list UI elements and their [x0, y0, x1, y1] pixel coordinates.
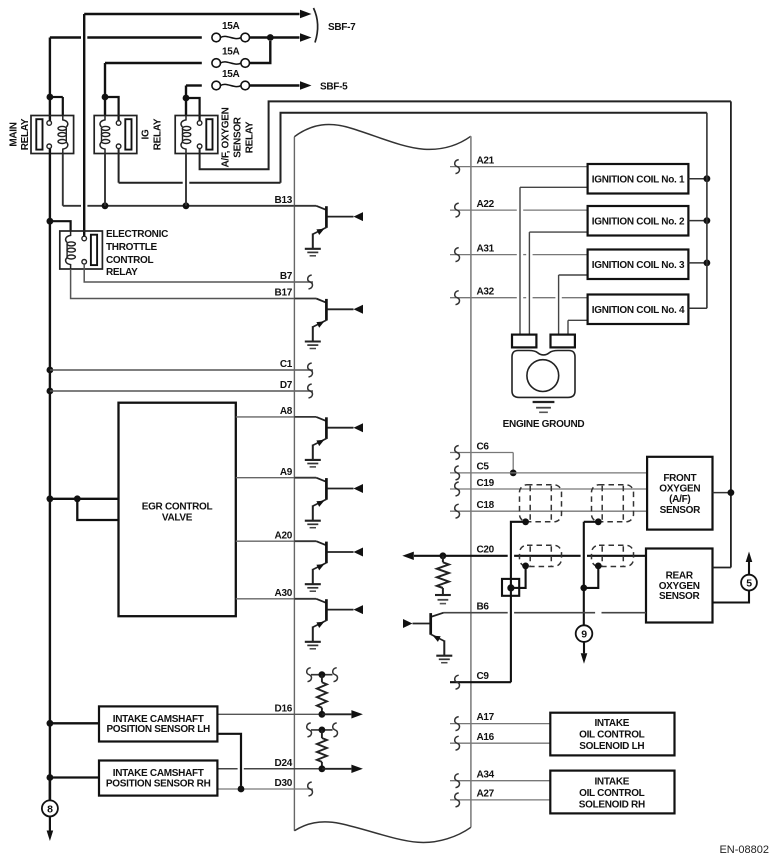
wire fuse row y63 from IG bus corner — [105, 62, 202, 64]
svg-text:15A: 15A — [222, 46, 240, 57]
wire LH sensor lower output to D30 junction — [217, 734, 241, 786]
node 8 circle — [42, 800, 58, 816]
svg-text:REAR: REAR — [666, 570, 694, 581]
wire from main bus to ETC relay coil — [50, 221, 71, 231]
wire ignition coil 3 right pin — [688, 262, 707, 264]
svg-text:RELAY: RELAY — [20, 118, 31, 150]
label C6 — [477, 441, 490, 452]
svg-text:SOLENOID RH: SOLENOID RH — [579, 800, 645, 811]
svg-text:THROTTLE: THROTTLE — [106, 242, 158, 253]
wire bus to node 8 — [49, 778, 51, 801]
break squiggle A34 — [455, 774, 460, 788]
svg-text:A9: A9 — [280, 467, 293, 478]
label IGNITION COIL No. 4 — [592, 305, 685, 316]
wire D30 from RH sensor — [217, 788, 313, 790]
transistor Q1 on B13 — [294, 206, 363, 256]
svg-text:MAIN: MAIN — [9, 122, 20, 146]
svg-text:8: 8 — [47, 803, 53, 815]
wire A17 — [450, 723, 550, 725]
wire C6 stub — [450, 453, 513, 473]
wire shield2 C20 drain to node9 line — [587, 566, 598, 588]
wire A/F relay coil out down to B13 — [185, 154, 187, 206]
label IGNITION COIL No. 2 — [592, 216, 685, 227]
label C1 — [280, 359, 293, 370]
svg-text:A16: A16 — [477, 732, 495, 743]
arrowhead SBF-5 — [300, 81, 312, 89]
svg-text:D30: D30 — [275, 778, 293, 789]
break squiggle R2 feed right — [333, 723, 338, 737]
break squiggle D30 — [308, 782, 313, 796]
junction dot drain node9 — [580, 585, 587, 592]
wire square down to C9 row — [510, 596, 512, 682]
svg-text:RELAY: RELAY — [153, 118, 164, 150]
wire ignition coil 4 right pin — [688, 307, 707, 309]
fuse F3 15A — [212, 81, 250, 90]
box INTAKE CAMSHAFT POSITION SENSOR LH — [99, 706, 217, 741]
wire fuse row y85.5 from A/F bus corner — [186, 84, 202, 86]
wire fuse row y37.5 left segment (from main relay bus corner) — [50, 36, 202, 38]
junction dot A/F relay feed — [183, 95, 190, 102]
wire main relay switch out (left bus down) — [49, 149, 51, 801]
break squiggle A22 — [455, 203, 460, 217]
svg-text:RELAY: RELAY — [245, 121, 256, 153]
junction dot ETC coil feed — [47, 218, 54, 225]
junction dot main relay feed — [47, 94, 54, 101]
break squiggle C5 — [455, 466, 460, 480]
svg-text:A22: A22 — [477, 199, 495, 210]
wire IG relay coil out down to B13 — [104, 154, 106, 206]
arrowhead node 8 down — [47, 831, 54, 842]
junction dot R1 top — [319, 671, 326, 678]
wire LH output final segment — [240, 786, 242, 789]
engine ground circle — [527, 360, 559, 392]
break squiggle C6 — [455, 446, 460, 460]
wire A20 from EGR — [236, 540, 295, 542]
junction dot shield1 C20 drain — [522, 563, 529, 570]
svg-text:C5: C5 — [477, 462, 490, 473]
junction dot coil 1 bus — [704, 175, 711, 182]
wire drain down to node 9 — [583, 588, 585, 625]
svg-text:15A: 15A — [222, 69, 240, 80]
svg-text:A17: A17 — [477, 712, 495, 723]
relay IG RELAY — [94, 116, 137, 154]
ground symbol engine ground — [533, 402, 555, 412]
fuse F2 15A — [212, 59, 250, 68]
box IGNITION COIL No. 4 — [588, 295, 689, 325]
svg-text:C1: C1 — [280, 359, 293, 370]
svg-text:INTAKE: INTAKE — [594, 777, 629, 788]
wire through square — [511, 579, 519, 596]
svg-text:CONTROL: CONTROL — [106, 255, 154, 266]
break squiggle R1 feed right — [333, 668, 338, 682]
label A22 — [477, 199, 495, 210]
shield junction square — [502, 579, 519, 596]
relay MAIN RELAY — [31, 116, 74, 154]
label EGR CONTROL VALVE — [142, 502, 213, 524]
power feed line above R2 — [311, 729, 333, 731]
wire ignition coil 2 right pin — [688, 220, 707, 222]
label INTAKE OIL CONTROL SOLENOID RH — [579, 777, 645, 811]
label IG RELAY — [141, 118, 164, 150]
junction dot SBF-7 lower — [267, 34, 274, 41]
svg-text:INTAKE: INTAKE — [594, 718, 629, 729]
svg-text:D16: D16 — [275, 704, 293, 715]
label SBF-7 — [328, 22, 356, 33]
connector spark plug block left — [512, 335, 536, 348]
junction dot R2 top — [319, 727, 326, 734]
svg-text:D7: D7 — [280, 380, 293, 391]
wire main bus vertical top segment x49.9 — [49, 38, 51, 121]
wire A22 to ignition coil — [450, 209, 588, 211]
transistor Q4 on A9 — [294, 478, 363, 528]
label B13 — [275, 195, 293, 206]
wire fuse F2 right up to junction — [250, 41, 271, 63]
label A21 — [477, 155, 495, 166]
box REAR OXYGEN SENSOR — [646, 549, 713, 623]
wire A32 to ignition coil — [450, 297, 588, 299]
label A/F OXYGEN SENSOR RELAY — [221, 107, 256, 167]
svg-text:OIL CONTROL: OIL CONTROL — [579, 788, 645, 799]
label INTAKE OIL CONTROL SOLENOID LH — [579, 718, 645, 752]
wire ignition coil lower lead to spark connector (x=520.0) — [520, 187, 588, 334]
label EN-08802 — [719, 844, 769, 856]
wire ignition coil 1 right pin — [688, 178, 707, 180]
break squiggle A21 — [455, 160, 460, 174]
break squiggle C9 — [455, 675, 460, 689]
svg-text:C6: C6 — [477, 441, 490, 452]
svg-text:FRONT: FRONT — [663, 473, 696, 484]
svg-text:C20: C20 — [477, 544, 495, 555]
junction dot EGR feed branch — [74, 495, 81, 502]
svg-text:SOLENOID LH: SOLENOID LH — [579, 741, 644, 752]
svg-text:ELECTRONIC: ELECTRONIC — [106, 229, 168, 240]
wire node 8 arrow — [49, 816, 51, 830]
svg-text:VALVE: VALVE — [162, 512, 193, 523]
wire C19 to front oxygen sensor — [450, 488, 647, 490]
junction dot C1 — [47, 367, 54, 374]
junction dot IG relay feed — [102, 94, 109, 101]
ground symbol under R3 — [435, 595, 451, 604]
box FRONT OXYGEN (A/F) SENSOR — [647, 457, 712, 530]
svg-text:C18: C18 — [477, 500, 495, 511]
wire ignition coil bus vertical x706.9 — [706, 113, 708, 309]
label D24 — [275, 758, 293, 769]
arrowhead SBF-7 upper — [300, 10, 312, 18]
label A31 — [477, 243, 495, 254]
svg-text:(A/F): (A/F) — [669, 494, 690, 505]
label A27 — [477, 789, 495, 800]
wire B13 horizontal — [63, 205, 295, 207]
wire A27 — [450, 799, 550, 801]
svg-text:EN-08802: EN-08802 — [719, 844, 769, 856]
junction dot D7 — [47, 388, 54, 395]
wire front sensor right pin to bus — [713, 492, 731, 494]
svg-text:A32: A32 — [477, 287, 495, 298]
label B6 — [477, 601, 490, 612]
relay ELECTRONIC THROTTLE CONTROL RELAY — [60, 231, 103, 269]
label ENGINE GROUND — [503, 419, 585, 430]
junction dot LH sensor feed — [47, 720, 54, 727]
svg-text:IGNITION COIL No. 1: IGNITION COIL No. 1 — [592, 174, 685, 185]
wire branch to A/F relay contact — [186, 98, 200, 121]
svg-text:OXYGEN: OXYGEN — [659, 484, 700, 495]
junction dot RH sensor feed — [47, 774, 54, 781]
box INTAKE OIL CONTROL SOLENOID LH — [550, 713, 674, 756]
label D7 — [280, 380, 293, 391]
wire A30 from EGR — [236, 598, 295, 600]
arrowhead D24 — [351, 765, 363, 773]
wire C9 — [450, 681, 511, 683]
svg-text:15A: 15A — [222, 21, 240, 32]
ECM right boundary — [470, 136, 472, 827]
svg-text:IGNITION COIL No. 2: IGNITION COIL No. 2 — [592, 216, 685, 227]
wire EGR feed upper — [50, 498, 119, 500]
break squiggle A31 — [455, 248, 460, 262]
label INTAKE CAMSHAFT POSITION SENSOR LH — [106, 714, 210, 735]
wire C20 left with arrow — [414, 555, 443, 557]
svg-text:A20: A20 — [275, 530, 293, 541]
svg-text:EGR CONTROL: EGR CONTROL — [142, 502, 213, 513]
label C5 — [477, 462, 490, 473]
wire rear sensor lower right pin to node 5 — [713, 591, 750, 603]
wire fuse F3 to arrow SBF-5 — [250, 84, 300, 86]
wire node 9 arrow — [583, 642, 585, 653]
wire ignition coil lower lead to spark connector (x=558.6) — [559, 275, 588, 335]
wire ignition coil lower lead to spark connector (x=568.0) — [568, 320, 588, 334]
transistor Q2 on B17 — [294, 299, 363, 349]
node 9 circle — [576, 625, 593, 642]
arrowhead node 5 up — [746, 552, 753, 563]
relay A/F OXYGEN SENSOR RELAY — [175, 116, 218, 154]
wire A21 to ignition coil — [450, 166, 588, 168]
arrowhead SBF-7 lower — [300, 33, 312, 41]
svg-text:POSITION SENSOR RH: POSITION SENSOR RH — [106, 778, 211, 789]
label IGNITION COIL No. 1 — [592, 174, 685, 185]
junction dot inside square — [507, 584, 514, 591]
box EGR CONTROL VALVE — [119, 403, 236, 617]
break squiggle R1 feed left — [307, 668, 312, 682]
shield capsule 1 on C20 — [520, 545, 562, 566]
label A32 — [477, 287, 495, 298]
label B17 — [275, 288, 293, 299]
svg-text:C9: C9 — [477, 671, 490, 682]
break squiggle R2 feed left — [307, 723, 312, 737]
label SBF-5 — [320, 81, 348, 92]
label A34 — [477, 769, 495, 780]
engine ground body — [512, 351, 575, 398]
ECM bottom wavy edge — [294, 822, 471, 843]
junction dot shield2 C20 drain — [595, 563, 602, 570]
svg-text:A31: A31 — [477, 243, 495, 254]
resistor R1 on D16 — [317, 675, 327, 715]
junction dot coil 3 bus — [704, 260, 711, 267]
wire ETC feed vertical x84.2 from SBF-7 row — [83, 14, 85, 236]
box IGNITION COIL No. 3 — [588, 250, 689, 280]
wire bus to RH sensor — [50, 776, 99, 778]
wire A34 — [450, 780, 550, 782]
svg-text:A/F, OXYGEN: A/F, OXYGEN — [221, 107, 232, 167]
junction dot C20 resistor — [440, 552, 447, 559]
label A8 — [280, 406, 293, 417]
fuse F1 15A — [212, 33, 250, 42]
shield capsule 2 on C20 — [592, 545, 634, 566]
label A16 — [477, 732, 495, 743]
svg-text:5: 5 — [746, 578, 752, 590]
junction dot B13 A/F coil — [183, 202, 190, 209]
svg-text:RELAY: RELAY — [106, 267, 138, 278]
wire SBF-7 upper feed from corner to arrow — [84, 13, 299, 15]
label A30 — [275, 588, 293, 599]
break squiggle A16 — [455, 736, 460, 750]
wire ETC relay switch out to B7 — [84, 264, 313, 282]
label A20 — [275, 530, 293, 541]
wire A/F relay switch out to oxygen sensor feed — [200, 101, 731, 169]
label 15A fuse3 — [222, 69, 240, 80]
break squiggle A17 — [455, 717, 460, 731]
label B7 — [280, 271, 293, 282]
svg-text:D24: D24 — [275, 758, 293, 769]
label A9 — [280, 467, 293, 478]
wire shield2 C19C18 drain down — [584, 522, 599, 588]
wire D16 from LH sensor — [217, 713, 322, 715]
svg-text:B6: B6 — [477, 601, 490, 612]
junction dot R2 bottom on D24 — [319, 765, 326, 772]
connector spark plug block right — [551, 335, 575, 348]
label C19 — [477, 478, 495, 489]
wire shield1 C20 drain to square — [519, 566, 525, 588]
shield capsule 2 on C19/C18 — [592, 485, 634, 522]
wire IG bus vertical x105.6 — [104, 63, 106, 116]
paren bracket for SBF-7 arrows — [314, 8, 318, 43]
label D30 — [275, 778, 293, 789]
wire D24 from RH sensor — [217, 768, 322, 770]
transistor Q3 on A8 — [294, 417, 363, 467]
svg-text:A27: A27 — [477, 789, 495, 800]
resistor R3 on C20 — [437, 556, 449, 595]
wire EGR feed lower branch — [77, 499, 118, 520]
break squiggle A27 — [455, 793, 460, 807]
wire A31 to ignition coil — [450, 254, 588, 256]
svg-text:B13: B13 — [275, 195, 293, 206]
wire A16 — [450, 742, 550, 744]
wire C20 across boundary to rear sensor — [443, 555, 646, 557]
wire bus to LH sensor — [50, 722, 99, 724]
junction dot shield2 C19C18 drain — [595, 518, 602, 525]
ECM top wavy edge — [294, 125, 471, 150]
svg-text:B7: B7 — [280, 271, 293, 282]
junction dot EGR feed on bus — [47, 495, 54, 502]
label D16 — [275, 704, 293, 715]
svg-text:9: 9 — [581, 629, 587, 641]
transistor Q6 on A30 — [294, 599, 363, 649]
label FRONT OXYGEN (A/F) SENSOR — [659, 473, 701, 516]
junction dot coil 2 bus — [704, 217, 711, 224]
transistor Q7 on B6 (mirrored) — [403, 613, 452, 663]
break squiggle C1 — [308, 363, 313, 377]
break squiggle C19 — [455, 482, 460, 496]
svg-text:SBF-7: SBF-7 — [328, 22, 356, 33]
junction dot shield1 C19C18 drain — [522, 518, 529, 525]
label REAR OXYGEN SENSOR — [659, 570, 701, 602]
junction dot front sensor bus — [728, 489, 735, 496]
arrowhead node 9 down — [581, 653, 588, 664]
wire node 5 arrow up — [748, 562, 750, 575]
break squiggle A32 — [455, 291, 460, 305]
wire branch to IG relay contact — [105, 97, 119, 121]
wire C1 — [50, 369, 313, 371]
wire B6 from rear sensor to transistor — [444, 612, 646, 614]
box INTAKE CAMSHAFT POSITION SENSOR RH — [99, 761, 217, 796]
shield capsule 1 on C19/C18 — [520, 485, 562, 522]
label C20 — [477, 544, 495, 555]
wire ignition coil lower lead to spark connector (x=529.4) — [529, 232, 587, 335]
resistor R2 on D24 — [317, 730, 327, 769]
wire IG relay switch out to ignition feed — [119, 113, 707, 183]
label ELECTRONIC THROTTLE CONTROL RELAY — [106, 229, 168, 278]
arrowhead D16 — [351, 710, 363, 718]
svg-text:SENSOR: SENSOR — [660, 505, 702, 516]
break squiggle D7 — [308, 384, 313, 398]
label INTAKE CAMSHAFT POSITION SENSOR RH — [106, 768, 211, 789]
label C9 — [477, 671, 490, 682]
svg-text:SENSOR: SENSOR — [659, 591, 701, 602]
wire oxygen feed to rear sensor upper pin — [713, 567, 731, 569]
wire D7 — [50, 390, 313, 392]
label MAIN RELAY — [9, 118, 32, 150]
svg-text:C19: C19 — [477, 478, 495, 489]
svg-text:IGNITION COIL No. 4: IGNITION COIL No. 4 — [592, 305, 685, 316]
arrowhead C20 left — [402, 552, 414, 560]
transistor Q5 on A20 — [294, 541, 363, 591]
label IGNITION COIL No. 3 — [592, 260, 685, 271]
wire A9 from EGR — [236, 477, 295, 479]
svg-text:A30: A30 — [275, 588, 293, 599]
svg-text:POSITION SENSOR LH: POSITION SENSOR LH — [106, 724, 210, 735]
junction dot LH output joins D30 — [238, 786, 245, 793]
svg-text:OIL CONTROL: OIL CONTROL — [579, 730, 645, 741]
svg-text:IG: IG — [141, 129, 152, 139]
svg-text:IGNITION COIL No. 3: IGNITION COIL No. 3 — [592, 260, 685, 271]
wire main relay coil out to B13 — [62, 154, 64, 206]
wire C5 to front oxygen sensor — [450, 472, 647, 474]
junction dot C6-C5 — [510, 470, 517, 477]
wire shield1 C19C18 drain to square — [511, 522, 526, 579]
svg-text:B17: B17 — [275, 288, 293, 299]
box IGNITION COIL No. 2 — [588, 206, 689, 236]
svg-text:ENGINE GROUND: ENGINE GROUND — [503, 419, 585, 430]
box INTAKE OIL CONTROL SOLENOID RH — [550, 771, 674, 814]
wire ETC relay coil out to B17 — [71, 269, 295, 299]
svg-text:SENSOR: SENSOR — [233, 116, 244, 158]
node 5 circle — [741, 575, 757, 591]
label 15A fuse1 — [222, 21, 240, 32]
junction dot R1 bottom on D16 — [319, 711, 326, 718]
svg-text:SBF-5: SBF-5 — [320, 81, 348, 92]
wire D16 arrow out — [322, 713, 352, 715]
svg-text:A8: A8 — [280, 406, 293, 417]
label C18 — [477, 500, 495, 511]
junction dot B13 IG coil — [102, 202, 109, 209]
power feed line above R1 — [311, 674, 333, 676]
wire branch to main relay coil — [50, 97, 63, 116]
wire D24 arrow out — [322, 768, 352, 770]
svg-text:A21: A21 — [477, 155, 495, 166]
break squiggle B7 — [308, 275, 313, 289]
svg-text:OXYGEN: OXYGEN — [659, 581, 700, 592]
box IGNITION COIL No. 1 — [588, 164, 689, 194]
break squiggle C18 — [455, 504, 460, 518]
wire A/F bus vertical x186.6 — [185, 86, 187, 116]
